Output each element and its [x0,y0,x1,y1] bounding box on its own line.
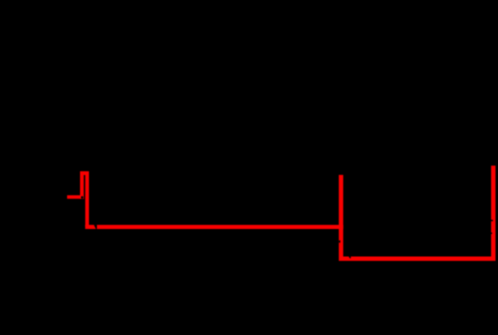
node mark: wedge on lower bus near corner [348,256,351,259]
wire: long horizontal bus (upper) [85,225,343,229]
node mark: battery stub corner notch [81,196,83,199]
wire: left hairpin around battery plate [82,173,87,227]
node mark: tick on right vertical branch (lower) [491,233,492,235]
node mark: wedge on upper bus near left [94,225,97,229]
wire: battery lead stub (left) [67,195,84,199]
wire: middle vertical branch, lower bus and right vertical branch [341,166,493,259]
node mark: tick on middle vertical branch [339,240,341,242]
node mark: tick on right vertical branch (upper) [491,220,493,221]
